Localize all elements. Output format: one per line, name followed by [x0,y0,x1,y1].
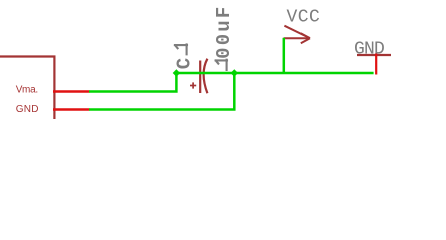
svg-text:C: C [173,58,195,69]
svg-text:GND: GND [354,40,384,60]
svg-text:Vma.: Vma. [16,85,38,96]
svg-text:GND: GND [16,104,39,115]
svg-text:VCC: VCC [287,7,321,27]
svg-text:00uF: 00uF [213,4,235,58]
